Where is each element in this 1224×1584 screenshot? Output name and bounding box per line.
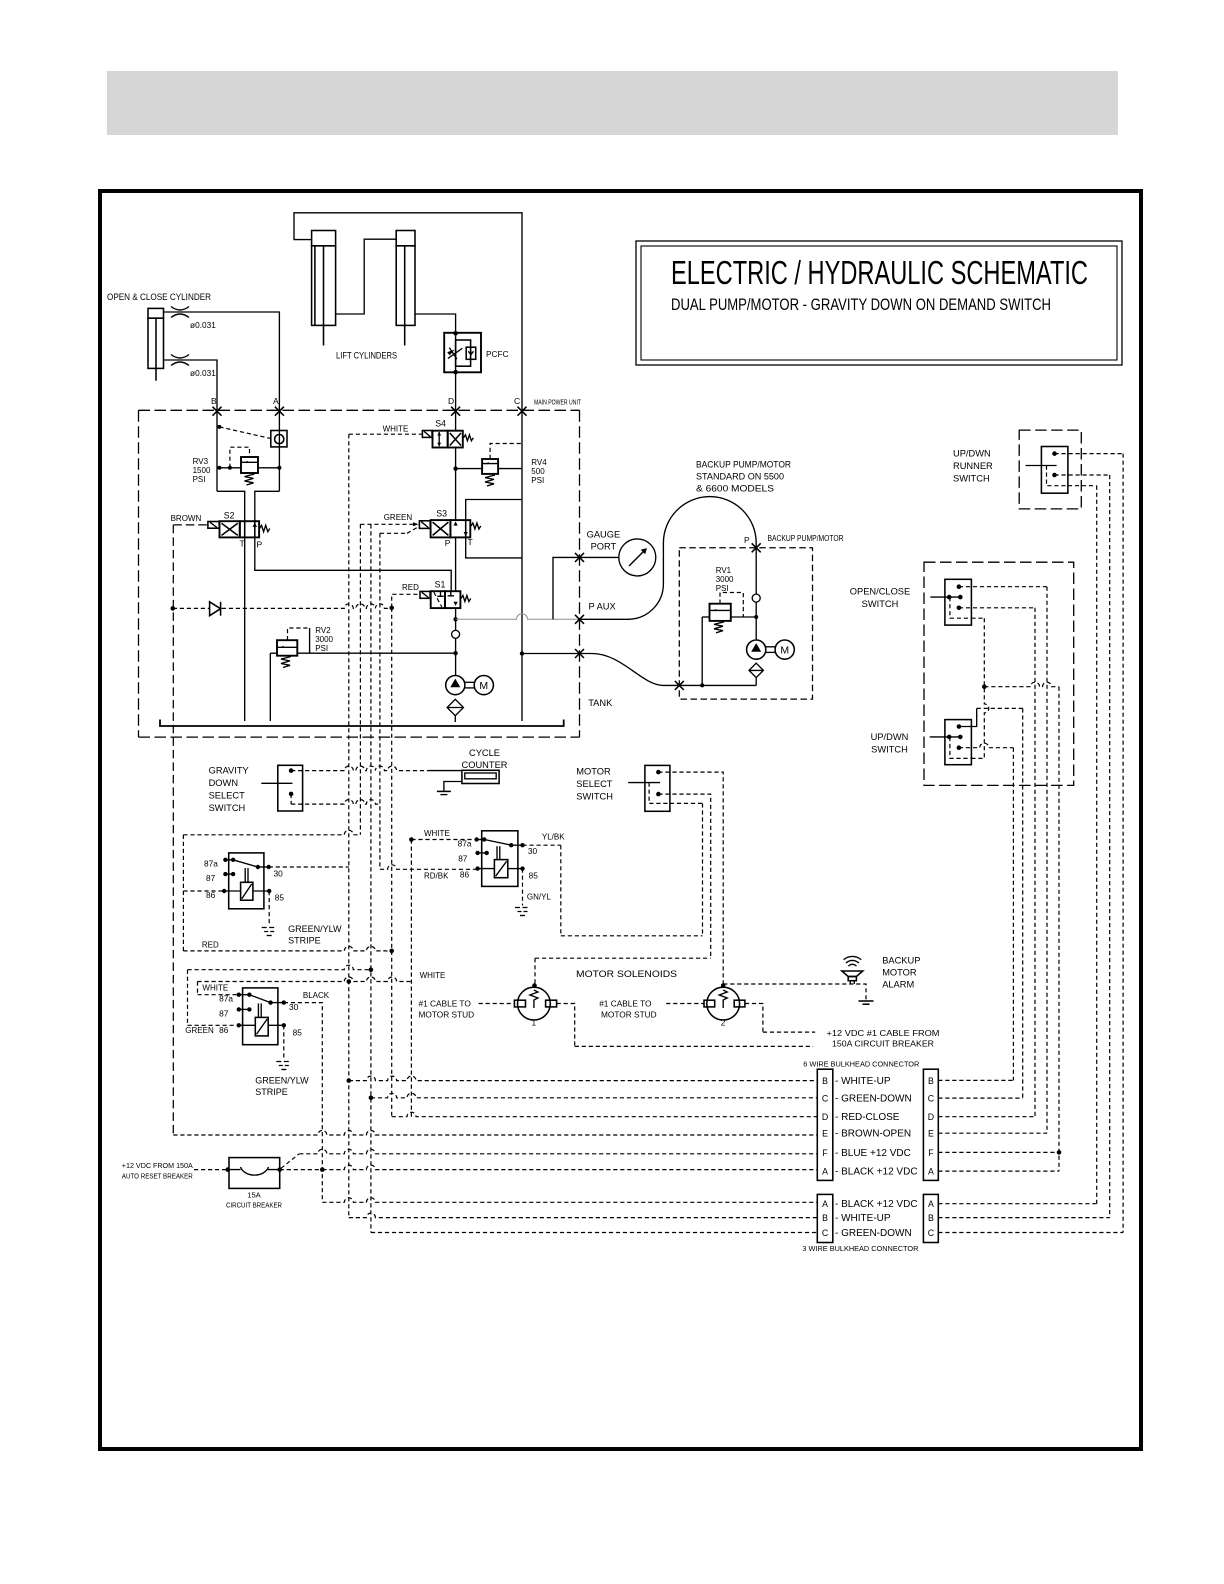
svg-text:GN/YL: GN/YL xyxy=(527,893,552,902)
svg-text:S1: S1 xyxy=(435,580,446,590)
wire backup P line to pump xyxy=(755,602,757,640)
switches dash-dot box xyxy=(924,562,1074,785)
wire C branch to S3 T xyxy=(466,500,522,521)
ground K3 xyxy=(276,1062,291,1070)
svg-text:B: B xyxy=(822,1213,828,1223)
relay K2 xyxy=(474,831,524,887)
svg-text:T: T xyxy=(468,537,473,547)
solenoid valve S1 xyxy=(420,580,471,609)
svg-text:86: 86 xyxy=(219,1025,229,1035)
svg-text:PSI: PSI xyxy=(716,584,729,593)
svg-text:P: P xyxy=(257,540,263,550)
svg-text:BLACK: BLACK xyxy=(303,991,330,1000)
svg-text:D: D xyxy=(822,1112,828,1122)
circuit breaker CB1 xyxy=(229,1158,280,1189)
junction dot WHITE-V1 xyxy=(347,979,352,984)
wire up/dwn bottom WHITE-UP xyxy=(959,743,1014,748)
svg-text:PSI: PSI xyxy=(193,475,206,484)
solenoid valve S2 xyxy=(208,511,270,550)
svg-text:3000: 3000 xyxy=(315,635,333,644)
wire 3wire right B to runner xyxy=(938,475,1109,1218)
backup pump P2 xyxy=(747,640,775,659)
svg-text:3000: 3000 xyxy=(716,575,734,584)
wire D line S3 to S1 xyxy=(455,537,457,591)
svg-text:+12 VDC FROM 150A: +12 VDC FROM 150A xyxy=(122,1161,194,1170)
svg-text:- WHITE-UP: - WHITE-UP xyxy=(835,1213,891,1224)
PCFC valve xyxy=(444,331,481,374)
title block box xyxy=(636,241,1122,365)
svg-text:A: A xyxy=(822,1199,828,1209)
wire backup suction xyxy=(755,678,757,686)
svg-text:S2: S2 xyxy=(224,511,235,521)
node backup P port X xyxy=(752,543,761,552)
wire cylinder bottom port to B xyxy=(164,360,218,411)
wire K1 left rail xyxy=(183,830,360,951)
pilot line to check valve xyxy=(219,427,270,439)
svg-text:1500: 1500 xyxy=(193,466,211,475)
svg-text:PORT: PORT xyxy=(591,542,617,552)
svg-text:- BLACK +12 VDC: - BLACK +12 VDC xyxy=(835,1199,918,1210)
cycle counter xyxy=(437,770,499,794)
svg-text:& 6600 MODELS: & 6600 MODELS xyxy=(696,484,774,494)
main pump P1 xyxy=(446,676,475,695)
up/dwn runner switch SW5 xyxy=(1026,447,1068,494)
svg-text:MOTOR STUD: MOTOR STUD xyxy=(601,1010,657,1020)
node TANK port X xyxy=(575,649,584,658)
wire motor select common YL/BK path xyxy=(561,803,703,935)
svg-text:MOTOR: MOTOR xyxy=(576,767,611,777)
svg-text:WHITE: WHITE xyxy=(383,425,409,434)
gravity down select switch SW1 xyxy=(261,765,302,811)
wire motor select top to solenoid2 xyxy=(658,772,723,984)
svg-text:C: C xyxy=(822,1094,829,1104)
wire 3wire B row xyxy=(349,1213,818,1217)
lift cylinder 2 xyxy=(396,231,415,346)
svg-text:BROWN: BROWN xyxy=(171,514,202,523)
wire gray P AUX line xyxy=(456,614,580,620)
wire relay2 WHITE vertical V6 xyxy=(410,840,412,1117)
wire diode row xyxy=(173,604,392,609)
junction dot tank return xyxy=(520,651,524,655)
svg-text:MOTOR SOLENOIDS: MOTOR SOLENOIDS xyxy=(576,969,677,980)
svg-text:SELECT: SELECT xyxy=(209,791,245,801)
node C xyxy=(518,407,527,416)
wire S2 T to tank xyxy=(244,537,246,721)
svg-text:RV4: RV4 xyxy=(531,458,547,467)
wire up/dwn top GREEN-DOWN xyxy=(959,708,1023,726)
svg-text:85: 85 xyxy=(529,871,539,881)
orifice node on D line xyxy=(452,630,460,638)
svg-text:GRAVITY: GRAVITY xyxy=(209,766,249,776)
svg-text:87a: 87a xyxy=(204,859,218,869)
wire row labels 6-wire xyxy=(835,1076,918,1178)
svg-text:S3: S3 xyxy=(436,509,447,519)
wire RED vertical V5 xyxy=(391,608,393,1117)
wire GREEN vertical V3 xyxy=(370,524,372,1232)
svg-text:- RED-CLOSE: - RED-CLOSE xyxy=(835,1112,900,1123)
svg-text:ø0.031: ø0.031 xyxy=(190,320,216,330)
wire open/close top BROWN-OPEN xyxy=(959,586,1047,588)
wire solenoid2 out to +12 cable xyxy=(745,1004,815,1033)
svg-text:D: D xyxy=(448,396,454,406)
svg-text:BACKUP: BACKUP xyxy=(882,956,920,966)
up/dwn runner switch box xyxy=(1019,430,1081,509)
svg-text:87: 87 xyxy=(206,873,216,883)
svg-text:PSI: PSI xyxy=(531,476,544,485)
svg-text:LIFT CYLINDERS: LIFT CYLINDERS xyxy=(336,351,397,361)
svg-text:STANDARD ON 5500: STANDARD ON 5500 xyxy=(696,472,784,482)
svg-text:TANK: TANK xyxy=(588,698,613,708)
wire A line down xyxy=(278,411,280,491)
main power unit dashed boundary box xyxy=(139,410,580,737)
wire E row BROWN-OPEN xyxy=(173,1131,817,1136)
svg-text:COUNTER: COUNTER xyxy=(462,760,508,770)
6-wire bulkhead connector left xyxy=(817,1069,833,1180)
wire tank return branch xyxy=(522,653,580,655)
svg-text:RV3: RV3 xyxy=(193,457,209,466)
junction dot +12 branch xyxy=(982,684,987,689)
svg-text:GREEN/YLW: GREEN/YLW xyxy=(288,924,342,934)
relief valve RV3 xyxy=(217,447,281,485)
wire cycle counter lead xyxy=(428,770,462,772)
wire open/close common +12 xyxy=(971,617,984,619)
svg-text:A: A xyxy=(928,1167,934,1177)
wire D line S4 to S3 xyxy=(455,448,457,521)
wire PCFC to D xyxy=(455,372,457,430)
svg-text:OPEN & CLOSE CYLINDER: OPEN & CLOSE CYLINDER xyxy=(107,292,211,302)
wire GREEN to S3 solenoid xyxy=(360,524,418,533)
svg-text:UP/DWN: UP/DWN xyxy=(871,732,909,742)
open/close switch SW3 xyxy=(930,579,971,625)
wire top supply line to C xyxy=(294,213,522,411)
svg-text:SWITCH: SWITCH xyxy=(871,745,908,755)
wire F row BLUE +12 xyxy=(299,1149,817,1154)
ground K1 xyxy=(262,928,277,936)
wire K1 85 to ground xyxy=(268,891,270,925)
junction dot BROWN diode xyxy=(171,606,176,611)
wire cylinder2 to PCFC xyxy=(415,314,456,333)
svg-text:- BLACK +12 VDC: - BLACK +12 VDC xyxy=(835,1167,918,1178)
svg-text:MOTOR: MOTOR xyxy=(882,968,917,978)
svg-text:WHITE: WHITE xyxy=(420,971,446,980)
wire 6wire right E to open/close xyxy=(938,587,1047,1133)
outer drawing frame xyxy=(100,191,1141,1449)
svg-text:WHITE: WHITE xyxy=(424,829,450,838)
wire 3wire right A to runner xyxy=(938,486,1096,1204)
svg-text:15A: 15A xyxy=(247,1191,261,1200)
svg-text:YL/BK: YL/BK xyxy=(542,833,565,842)
svg-text:T: T xyxy=(240,539,245,549)
node P AUX X xyxy=(575,615,584,624)
wire 6wire right F and A +12 xyxy=(938,687,1059,1171)
svg-text:RV2: RV2 xyxy=(315,626,331,635)
3-wire bulkhead connector left xyxy=(817,1194,833,1242)
svg-text:85: 85 xyxy=(275,893,285,903)
wire K3 85 to ground xyxy=(283,1025,285,1059)
wire RD/BK to K2 86 xyxy=(380,865,478,870)
svg-text:A: A xyxy=(822,1167,828,1177)
svg-text:- GREEN-DOWN: - GREEN-DOWN xyxy=(835,1094,912,1105)
svg-text:UP/DWN: UP/DWN xyxy=(953,449,991,459)
svg-text:RV1: RV1 xyxy=(716,566,732,575)
wire BROWN to S2 solenoid xyxy=(173,524,208,526)
svg-text:E: E xyxy=(822,1129,828,1139)
wire +12 branch to F xyxy=(984,682,1059,687)
wire 3wire right C to runner xyxy=(938,454,1123,1233)
svg-text:A: A xyxy=(273,396,279,406)
motor solenoid 2 xyxy=(704,983,745,1020)
junction dot RV1 out xyxy=(754,615,758,619)
wire WHITE to K2 87a xyxy=(411,839,476,841)
wire runner top to 3wire C xyxy=(1055,453,1124,455)
svg-text:RED: RED xyxy=(202,941,219,950)
svg-text:- BROWN-OPEN: - BROWN-OPEN xyxy=(835,1129,911,1140)
wire K3 87a WHITE xyxy=(198,977,412,995)
wire +12 vertical V984 xyxy=(971,618,988,758)
svg-text:A: A xyxy=(928,1199,934,1209)
solenoid valve S4 xyxy=(422,419,473,448)
node D xyxy=(451,407,460,416)
svg-text:SWITCH: SWITCH xyxy=(862,599,899,609)
wire YL/BK K2 30 xyxy=(523,844,561,846)
wire B row WHITE-UP xyxy=(349,1076,818,1081)
relief valve RV2 xyxy=(270,628,458,721)
wire stub to solenoid1 xyxy=(479,1003,515,1005)
svg-text:GREEN: GREEN xyxy=(185,1026,214,1035)
node backup suction X xyxy=(675,681,684,690)
wire GREEN-A vertical V2 xyxy=(359,524,361,835)
lift cylinder 1 xyxy=(312,231,336,346)
svg-text:PCFC: PCFC xyxy=(486,349,509,359)
svg-text:87: 87 xyxy=(219,1009,229,1019)
svg-text:30: 30 xyxy=(274,869,284,879)
pressure gauge G1 xyxy=(619,539,656,576)
wire 6wire right C to up/dwn xyxy=(938,708,1022,1098)
node A xyxy=(275,407,284,416)
header gray bar xyxy=(107,71,1118,135)
svg-text:2: 2 xyxy=(721,1018,726,1028)
svg-text:+12 VDC #1 CABLE FROM: +12 VDC #1 CABLE FROM xyxy=(827,1028,940,1038)
svg-text:E: E xyxy=(928,1129,934,1139)
svg-text:86: 86 xyxy=(460,870,470,880)
svg-text:B: B xyxy=(822,1076,828,1086)
check valve CV1 xyxy=(271,431,287,447)
wire gauge port tap xyxy=(553,557,619,619)
wire diagonal to F row xyxy=(281,1154,299,1169)
svg-text:RUNNER: RUNNER xyxy=(953,461,993,471)
junction dot RV1 bottom xyxy=(700,683,704,687)
3-wire bulkhead connector right xyxy=(923,1194,938,1242)
orifice restrictor top xyxy=(171,307,189,318)
wire 3wire C row xyxy=(371,1232,817,1234)
wire D row RED-CLOSE xyxy=(392,1112,818,1117)
wire C row GREEN-DOWN xyxy=(371,1093,817,1098)
svg-text:P: P xyxy=(445,538,451,548)
svg-text:WHITE: WHITE xyxy=(202,984,228,993)
motor M1 xyxy=(474,676,493,695)
svg-text:GREEN: GREEN xyxy=(384,513,413,522)
junction dot S1 P AUX tap xyxy=(453,617,457,621)
wire cylinder1 to cylinder2 xyxy=(336,239,397,314)
wire stub to solenoid2 xyxy=(666,1003,704,1005)
wire K2 85 GN/YL to ground xyxy=(522,869,524,906)
svg-text:B: B xyxy=(928,1213,934,1223)
wire S3 T return to C xyxy=(466,537,522,558)
wire RED to S1 solenoid xyxy=(392,594,420,607)
orifice restrictor bottom xyxy=(171,355,189,366)
relief valve RV4 xyxy=(453,444,522,487)
wire row labels 3-wire xyxy=(835,1199,918,1239)
pilot dot on B line xyxy=(217,425,221,429)
svg-text:SELECT: SELECT xyxy=(576,779,612,789)
svg-text:C: C xyxy=(928,1228,935,1238)
svg-text:6 WIRE BULKHEAD CONNECTOR: 6 WIRE BULKHEAD CONNECTOR xyxy=(803,1060,919,1069)
svg-text:C: C xyxy=(822,1228,829,1238)
wire backup P line down xyxy=(755,548,757,594)
wire K1 30 out xyxy=(269,866,349,868)
wire solenoid2 top to alarm xyxy=(723,984,866,1001)
open/close cylinder xyxy=(148,308,164,380)
relay K1 xyxy=(222,853,271,909)
junction dot RED diode xyxy=(389,606,394,611)
junction dot BLACK +12 xyxy=(320,1167,325,1172)
svg-text:- GREEN-DOWN: - GREEN-DOWN xyxy=(835,1228,912,1239)
wire gravity bottom to RD/BK xyxy=(291,800,380,805)
svg-text:PSI: PSI xyxy=(315,644,328,653)
wire BROWN vertical xyxy=(172,525,174,1135)
svg-text:GREEN/YLW: GREEN/YLW xyxy=(255,1076,309,1086)
junction dot GREEN-V3 xyxy=(369,967,374,972)
wire 6wire right B to up/dwn xyxy=(938,748,1013,1081)
svg-text:85: 85 xyxy=(293,1028,303,1038)
wire 6wire right D to open/close xyxy=(938,608,1035,1117)
svg-text:STRIPE: STRIPE xyxy=(255,1087,288,1097)
backup motor alarm xyxy=(842,956,863,984)
junction dot breaker out xyxy=(277,1167,282,1172)
wire A row BLACK +12 xyxy=(322,1165,817,1170)
svg-text:B: B xyxy=(211,396,217,406)
svg-text:DOWN: DOWN xyxy=(209,778,238,788)
diode D1 xyxy=(210,602,221,616)
up/dwn switch SW4 xyxy=(930,720,972,765)
junction dot C row xyxy=(369,1096,374,1101)
svg-text:B: B xyxy=(928,1076,934,1086)
svg-text:87a: 87a xyxy=(458,839,472,849)
wire motor select bottom to solenoid1 xyxy=(535,794,711,984)
svg-text:M: M xyxy=(780,644,789,656)
svg-text:30: 30 xyxy=(528,846,538,856)
wire open/close bottom RED-CLOSE xyxy=(959,607,1035,609)
wire A jog to S2 P port xyxy=(255,491,280,521)
svg-text:OPEN/CLOSE: OPEN/CLOSE xyxy=(850,587,910,597)
wire 3wire A row xyxy=(322,1198,817,1203)
motor M2 backup xyxy=(775,640,794,659)
wire B line down xyxy=(216,411,218,491)
wire K3 30 BLACK xyxy=(284,1003,323,1203)
svg-text:#1 CABLE TO: #1 CABLE TO xyxy=(599,999,652,1009)
svg-text:500: 500 xyxy=(531,467,545,476)
ground alarm xyxy=(859,1001,874,1004)
svg-text:STRIPE: STRIPE xyxy=(288,936,321,946)
wire RED row xyxy=(183,946,391,951)
svg-text:D: D xyxy=(928,1112,934,1122)
svg-text:C: C xyxy=(514,396,520,406)
svg-text:ø0.031: ø0.031 xyxy=(190,368,216,378)
junction dot F row xyxy=(1057,1150,1062,1155)
suction strainer backup xyxy=(749,663,763,677)
wire runner bottom to 3wire B xyxy=(1055,474,1110,476)
relief valve RV1 xyxy=(702,593,756,686)
solenoid valve S3 xyxy=(419,509,480,549)
junction dot WHITE relay2 xyxy=(409,837,414,842)
svg-text:S4: S4 xyxy=(435,419,446,429)
svg-text:BACKUP PUMP/MOTOR: BACKUP PUMP/MOTOR xyxy=(696,460,791,470)
wire D line S1 down to pump xyxy=(455,608,457,676)
wire S2 P to S1 xyxy=(255,537,451,591)
tank line xyxy=(160,720,564,727)
svg-text:30: 30 xyxy=(289,1002,299,1012)
svg-text:C: C xyxy=(928,1094,935,1104)
wire B jog to S2 T port xyxy=(217,491,245,521)
wire P AUX curve to backup pump xyxy=(580,497,757,620)
junction dot B row xyxy=(347,1078,352,1083)
svg-text:SWITCH: SWITCH xyxy=(209,803,246,813)
wire S3-B/gravity vertical V4 xyxy=(379,533,381,869)
wire solenoid1 out to breaker cable xyxy=(557,1004,813,1047)
svg-text:MOTOR STUD: MOTOR STUD xyxy=(419,1010,475,1020)
wire WHITE to S4 solenoid xyxy=(349,433,423,435)
svg-text:GAUGE: GAUGE xyxy=(587,530,621,540)
svg-text:CYCLE: CYCLE xyxy=(469,748,500,758)
suction strainer main xyxy=(447,699,463,715)
node B xyxy=(213,407,222,416)
junction dot RED row xyxy=(389,949,394,954)
svg-text:87: 87 xyxy=(458,854,468,864)
wire runner common to 3wire A xyxy=(1068,485,1097,487)
svg-text:AUTO RESET BREAKER: AUTO RESET BREAKER xyxy=(122,1172,193,1181)
svg-text:SWITCH: SWITCH xyxy=(576,792,613,802)
svg-text:- BLUE +12 VDC: - BLUE +12 VDC xyxy=(835,1148,911,1159)
svg-text:MAIN POWER UNIT: MAIN POWER UNIT xyxy=(534,398,581,407)
wire to circuit breaker xyxy=(194,1169,229,1171)
wire gravity top to cycle counter xyxy=(291,766,428,771)
backup pump/motor dashed box xyxy=(679,548,812,699)
motor solenoid 1 xyxy=(514,983,556,1020)
svg-text:F: F xyxy=(822,1148,828,1158)
svg-text:CIRCUIT BREAKER: CIRCUIT BREAKER xyxy=(226,1201,282,1210)
svg-text:RD/BK: RD/BK xyxy=(424,872,449,881)
wire breaker out to BLACK junction xyxy=(280,1169,323,1171)
wire K3 86 GREEN xyxy=(188,965,371,1025)
svg-text:- WHITE-UP: - WHITE-UP xyxy=(835,1076,891,1087)
svg-text:1: 1 xyxy=(532,1018,537,1028)
node GAUGE PORT X xyxy=(575,553,584,562)
svg-text:3 WIRE BULKHEAD CONNECTOR: 3 WIRE BULKHEAD CONNECTOR xyxy=(802,1244,918,1253)
svg-text:M: M xyxy=(479,680,488,692)
svg-text:P AUX: P AUX xyxy=(589,602,616,612)
svg-text:P: P xyxy=(744,535,750,545)
svg-text:RED: RED xyxy=(402,583,419,592)
orifice node backup xyxy=(752,594,760,602)
svg-text:BACKUP PUMP/MOTOR: BACKUP PUMP/MOTOR xyxy=(768,534,844,543)
relay K3 xyxy=(237,988,286,1045)
svg-text:ELECTRIC / HYDRAULIC SCHEMATIC: ELECTRIC / HYDRAULIC SCHEMATIC xyxy=(671,254,1088,291)
svg-text:F: F xyxy=(928,1148,934,1158)
wire pump suction to tank xyxy=(454,716,456,722)
svg-text:150A CIRCUIT BREAKER: 150A CIRCUIT BREAKER xyxy=(832,1039,934,1049)
ground K2 xyxy=(515,908,530,916)
svg-text:DUAL PUMP/MOTOR - GRAVITY DOWN: DUAL PUMP/MOTOR - GRAVITY DOWN ON DEMAND… xyxy=(671,296,1051,314)
